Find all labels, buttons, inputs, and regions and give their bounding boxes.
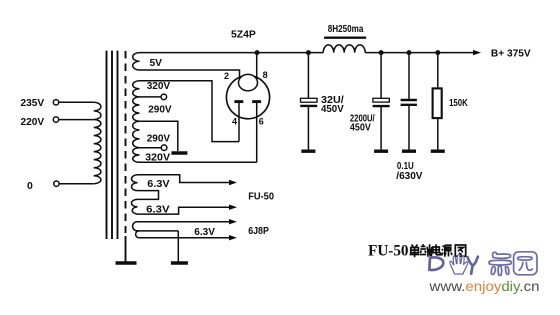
svg-text:6.3V: 6.3V <box>147 178 169 190</box>
svg-text:6.3V: 6.3V <box>146 204 169 216</box>
svg-text:4: 4 <box>232 117 237 127</box>
svg-text:290V: 290V <box>148 104 171 116</box>
svg-text:150K: 150K <box>449 97 468 109</box>
svg-text:B+ 375V: B+ 375V <box>491 47 531 59</box>
svg-text:450V: 450V <box>321 103 344 115</box>
svg-text:5Z4P: 5Z4P <box>231 29 256 41</box>
svg-text:/630V: /630V <box>396 170 422 182</box>
svg-text:6J8P: 6J8P <box>248 225 269 237</box>
svg-text:8: 8 <box>263 70 268 80</box>
svg-text:FU-50: FU-50 <box>248 191 274 203</box>
svg-text:8H250ma: 8H250ma <box>328 23 364 35</box>
svg-text:320V: 320V <box>147 80 170 92</box>
svg-text:450V: 450V <box>350 122 371 134</box>
svg-text:FU-50: FU-50 <box>368 242 408 259</box>
svg-text:220V: 220V <box>21 116 45 128</box>
svg-text:235V: 235V <box>21 97 45 109</box>
svg-text:290V: 290V <box>147 132 170 144</box>
svg-text:320V: 320V <box>145 152 170 164</box>
svg-text:2: 2 <box>224 71 229 81</box>
svg-text:6.3V: 6.3V <box>194 226 215 238</box>
svg-text:6: 6 <box>259 117 264 127</box>
svg-text:5V: 5V <box>150 57 163 69</box>
svg-text:0: 0 <box>27 180 33 192</box>
svg-text:www.enjoydiy.cn: www.enjoydiy.cn <box>428 279 539 294</box>
